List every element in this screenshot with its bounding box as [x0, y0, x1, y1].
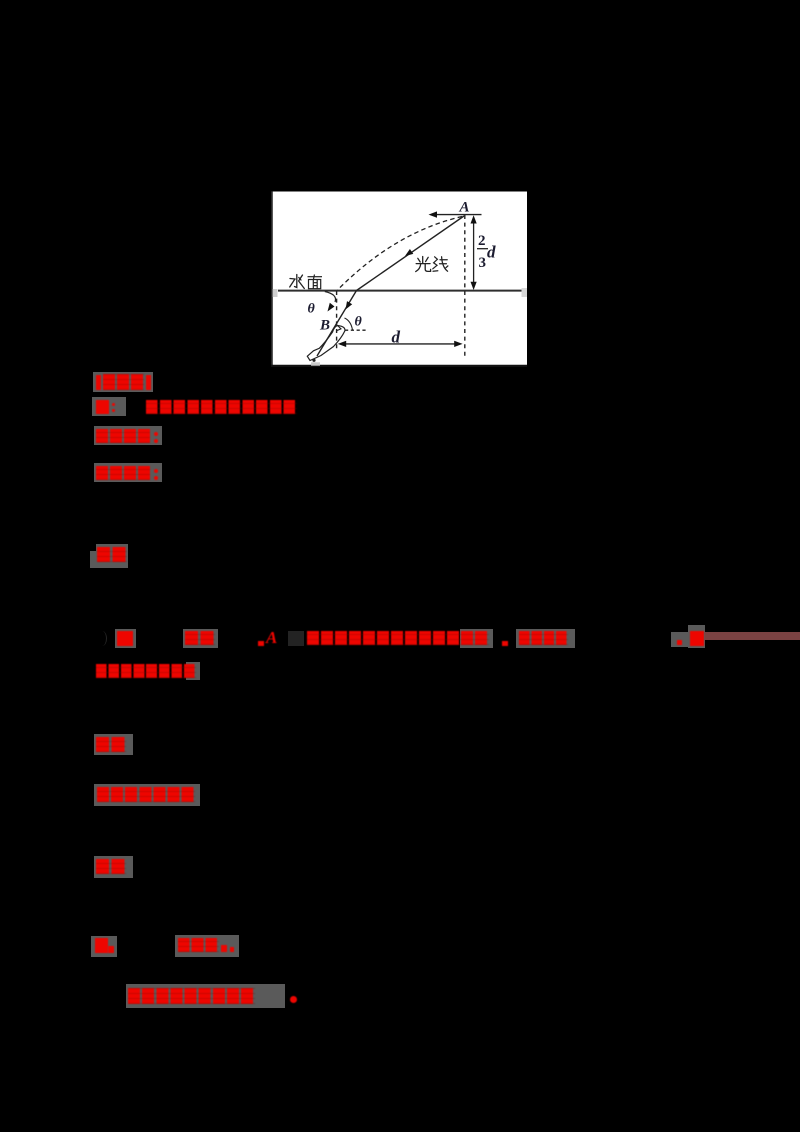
- horizontal arrow at A: [431, 214, 482, 216]
- angle arc at B: [345, 318, 353, 330]
- L9 由几何关系可知: [94, 784, 200, 806]
- dashed horizontal at B: [345, 329, 368, 331]
- svg-text:B: B: [319, 318, 330, 334]
- svg-text:A: A: [459, 200, 470, 216]
- L7 由光的折射定律可知: [186, 662, 200, 680]
- L11 故v... 速度为: [91, 936, 117, 957]
- L8 解得: [94, 734, 133, 755]
- left dashed vertical: [336, 291, 338, 349]
- right dashed vertical: [464, 215, 466, 356]
- label 水 (hand drawn): [290, 275, 305, 289]
- refracted ray: [317, 291, 357, 357]
- figure frame left border: [271, 191, 273, 367]
- figure frame bottom border: [271, 365, 527, 367]
- label 光 (hand drawn): [416, 257, 431, 272]
- fish mouth: [337, 326, 341, 331]
- gray nub left of water line: [273, 289, 278, 297]
- L3 水平方向：: [94, 426, 162, 445]
- L10 解得: [94, 856, 133, 878]
- L2 解： + 由平抛运动的规律可知: [92, 397, 126, 416]
- water surface line: [278, 290, 522, 292]
- L4 竖直方向：: [94, 463, 162, 482]
- L5 解得: [96, 544, 128, 568]
- label 面 (hand drawn): [308, 275, 323, 289]
- dark dot at tail: [312, 359, 315, 362]
- fish outline: [307, 326, 345, 361]
- figure: refraction diagram: [271, 191, 527, 367]
- dark red bar: [705, 632, 800, 640]
- curved arrow below entry point: [325, 292, 336, 303]
- L6 long line: [99, 631, 107, 646]
- d dimension arrow: [340, 343, 460, 345]
- gray nub right of water line: [522, 288, 528, 297]
- svg-text:d: d: [392, 328, 401, 347]
- svg-text:θ: θ: [355, 315, 363, 330]
- svg-text:d: d: [487, 243, 496, 262]
- arrowhead on incident ray: [405, 249, 413, 256]
- gray smudge below fish: [311, 362, 320, 365]
- svg-text:3: 3: [479, 255, 487, 271]
- svg-text:2: 2: [478, 233, 486, 249]
- arrowhead on refracted ray: [346, 301, 353, 309]
- L12 故…水面…的速度为 。: [126, 984, 285, 1008]
- vertical double arrow 2/3 d: [473, 220, 475, 285]
- svg-text:θ: θ: [308, 302, 316, 317]
- L1 【解答】: [93, 372, 153, 392]
- label 线 (hand drawn): [433, 257, 448, 272]
- incident light ray: [357, 216, 465, 291]
- dashed apparent sight line: [338, 217, 463, 291]
